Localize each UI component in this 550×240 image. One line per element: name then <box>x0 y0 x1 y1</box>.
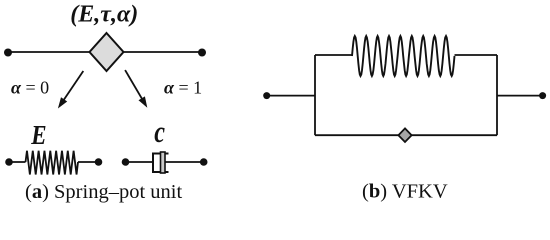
wire <box>267 95 315 97</box>
svg-text:(b) VFKV: (b) VFKV <box>362 181 448 203</box>
terminal dot right <box>198 49 206 57</box>
wire <box>455 54 498 56</box>
wire <box>126 161 154 163</box>
wire <box>78 161 99 163</box>
terminal dot <box>122 158 130 166</box>
wire <box>8 51 202 53</box>
terminal dot <box>200 158 208 166</box>
svg-text:α = 1: α = 1 <box>164 78 202 98</box>
terminal dot left (b) <box>263 92 270 99</box>
terminal dot left <box>4 49 12 57</box>
wire <box>9 161 26 163</box>
svg-text:α = 0: α = 0 <box>11 78 49 98</box>
svg-text:(a) Spring–pot unit: (a) Spring–pot unit <box>25 181 182 203</box>
dashpot c cylinder <box>153 154 169 173</box>
arrow alpha=1 <box>125 70 147 108</box>
wire <box>165 161 204 163</box>
arrow alpha=0 <box>58 71 83 109</box>
spring-pot diamond U2 <box>398 128 411 142</box>
terminal dot right (b) <box>539 92 546 99</box>
node left junction <box>314 55 316 135</box>
spring-pot diamond U1 <box>90 33 124 71</box>
spring E <box>26 151 79 175</box>
svg-text:(E,τ,α): (E,τ,α) <box>70 2 138 28</box>
terminal dot <box>95 158 103 166</box>
wire <box>315 134 497 136</box>
wire <box>315 54 352 56</box>
svg-text:E: E <box>30 121 46 150</box>
node right junction <box>496 55 498 135</box>
terminal dot <box>5 158 13 166</box>
dashpot c piston <box>161 152 166 173</box>
svg-text:c: c <box>154 115 165 150</box>
spring (b) <box>352 36 455 76</box>
wire <box>497 95 543 97</box>
